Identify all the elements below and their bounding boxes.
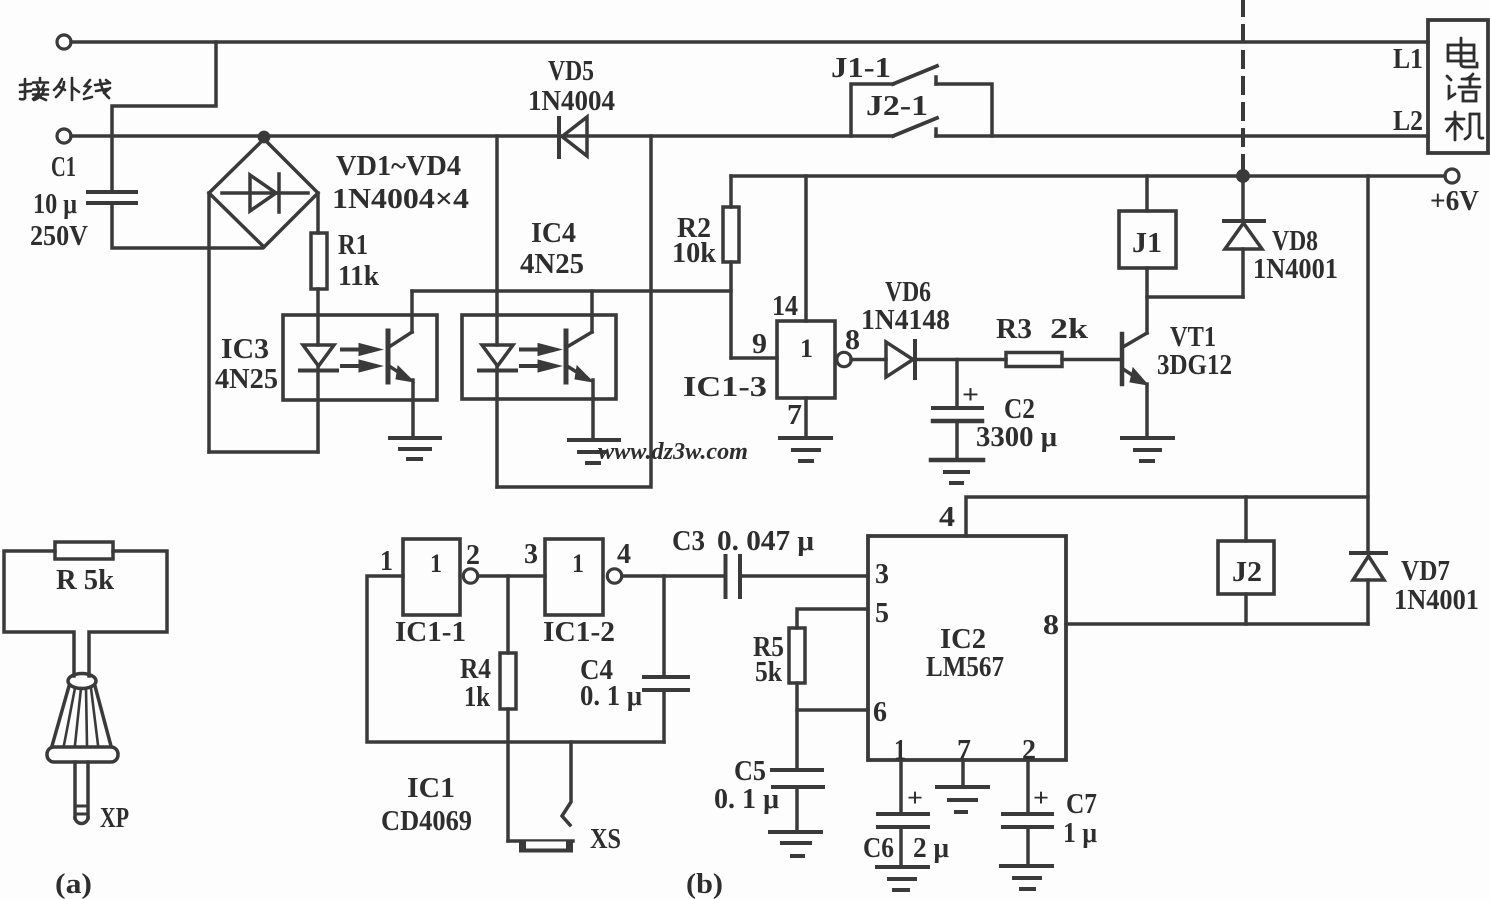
svg-text:+: +	[1033, 785, 1049, 812]
svg-text:J2: J2	[1232, 557, 1262, 588]
svg-text:www.dz3w.com: www.dz3w.com	[598, 439, 748, 465]
wire IC3 emitter down	[411, 380, 415, 437]
svg-text:L2: L2	[1393, 106, 1423, 137]
svg-text:C5: C5	[734, 756, 766, 787]
svg-text:VD1~VD4: VD1~VD4	[336, 151, 461, 182]
svg-text:IC1-2: IC1-2	[543, 617, 615, 648]
wire +6V rail	[731, 174, 1445, 178]
terminal T2	[57, 129, 71, 143]
ground pin7	[937, 785, 988, 789]
wire pin7 to ground	[804, 398, 808, 437]
svg-text:+: +	[907, 785, 923, 812]
svg-text:4N25: 4N25	[215, 364, 278, 395]
svg-text:LM567: LM567	[926, 652, 1004, 683]
svg-text:14: 14	[772, 291, 798, 322]
relay coil J1	[1145, 176, 1149, 211]
svg-text:IC3: IC3	[221, 334, 269, 365]
socket XS	[508, 839, 573, 843]
svg-text:7: 7	[957, 735, 971, 766]
ground IC3 emitter	[390, 436, 440, 440]
resistor R2	[729, 176, 733, 207]
wire pin8 net	[1066, 622, 1368, 626]
telephone box	[1428, 20, 1488, 153]
svg-text:1: 1	[800, 334, 813, 363]
svg-text:5k: 5k	[755, 657, 782, 688]
svg-text:1: 1	[894, 735, 906, 766]
svg-text:1: 1	[572, 549, 584, 578]
diode VD7	[1351, 551, 1386, 555]
switch J2-1	[893, 118, 937, 136]
ground C2	[931, 458, 983, 463]
ground C5	[770, 830, 821, 834]
optocoupler IC3 box	[283, 315, 437, 400]
svg-text:8: 8	[1043, 610, 1059, 641]
capacitor C6	[899, 760, 903, 813]
svg-text:VT1: VT1	[1170, 322, 1216, 353]
svg-text:2: 2	[466, 540, 480, 571]
wire collector bus y291	[412, 289, 731, 293]
svg-text:J1-1: J1-1	[831, 53, 891, 84]
capacitor C3	[724, 556, 728, 597]
node bridge top junction	[259, 132, 268, 141]
wire IC4 emitter down	[591, 380, 595, 438]
capacitor C4	[662, 576, 666, 677]
capacitor C7	[1026, 760, 1030, 813]
svg-text:3: 3	[875, 559, 889, 590]
char 机	[1446, 112, 1483, 140]
capacitor C2	[955, 360, 959, 408]
svg-text:XP: XP	[100, 803, 129, 834]
svg-text:1N4004: 1N4004	[528, 86, 615, 117]
capacitor C5	[772, 768, 822, 772]
svg-text:VD7: VD7	[1401, 556, 1450, 587]
svg-text:J2-1: J2-1	[866, 91, 928, 122]
wire line L2 left	[71, 134, 893, 138]
bridge inner diode	[222, 191, 308, 195]
wire pin7 down	[961, 760, 965, 786]
IC3 light arrows	[342, 348, 361, 352]
svg-text:7: 7	[787, 400, 802, 431]
wire R1 to LED	[316, 289, 320, 345]
char 话	[1447, 74, 1480, 101]
IC3 LED	[303, 345, 334, 366]
svg-text:6: 6	[873, 697, 887, 728]
ground IC4 emitter	[569, 438, 619, 442]
wire pin9	[731, 356, 777, 360]
svg-text:VD5: VD5	[548, 56, 594, 87]
diode VD6	[851, 358, 886, 362]
wire pin3	[741, 574, 868, 578]
wire input loop	[367, 576, 664, 742]
wire pin14	[804, 176, 808, 321]
svg-text:+: +	[962, 380, 979, 409]
svg-text:10 μ: 10 μ	[33, 189, 77, 220]
svg-text:1N4001: 1N4001	[1394, 585, 1479, 616]
svg-text:1k: 1k	[464, 682, 490, 713]
plug XP cone	[68, 674, 96, 689]
wire pin5	[797, 609, 868, 628]
wire line L2 right	[936, 134, 1428, 138]
ground C7	[1001, 864, 1052, 868]
wire top line L1	[71, 40, 1428, 44]
svg-text:2: 2	[1022, 735, 1036, 766]
IC4 LED	[482, 345, 513, 366]
svg-text:1N4148: 1N4148	[861, 305, 950, 336]
svg-text:XS: XS	[590, 824, 621, 855]
wire IC1-2 out to C3	[622, 574, 724, 578]
svg-text:C2: C2	[1004, 394, 1035, 425]
svg-text:R1: R1	[338, 230, 368, 261]
capacitor C1	[88, 190, 136, 194]
test plug loop (a)	[4, 551, 74, 676]
svg-text:(b): (b)	[686, 869, 723, 899]
svg-text:3DG12: 3DG12	[1157, 350, 1232, 381]
svg-text:1N4001: 1N4001	[1253, 254, 1338, 285]
svg-text:5: 5	[875, 598, 889, 629]
svg-text:R4: R4	[460, 654, 491, 685]
svg-text:1 μ: 1 μ	[1063, 818, 1097, 849]
svg-text:2 μ: 2 μ	[913, 833, 949, 864]
gate IC1-2	[545, 539, 603, 615]
char 线	[84, 80, 110, 99]
svg-text:J1: J1	[1132, 228, 1162, 259]
resistor R4	[506, 576, 510, 653]
char 电	[1448, 38, 1477, 67]
hand-drawn CJK: 接外线	[20, 78, 110, 100]
diode VD5	[557, 118, 561, 157]
resistor R5	[789, 628, 805, 683]
ground IC1-3	[780, 436, 831, 440]
svg-text:C1: C1	[51, 152, 76, 183]
terminal T1	[57, 35, 71, 49]
svg-text:0. 1 μ: 0. 1 μ	[580, 681, 642, 712]
svg-text:1: 1	[380, 546, 393, 577]
svg-text:C3: C3	[672, 526, 705, 557]
svg-text:3300 μ: 3300 μ	[976, 422, 1057, 453]
diode VD8	[1241, 176, 1245, 221]
wire bridge left arm down	[207, 193, 211, 452]
gate IC1-3	[777, 321, 835, 398]
relay coil J2	[1244, 497, 1248, 541]
svg-text:VD6: VD6	[885, 277, 931, 308]
gate IC1-1	[403, 539, 460, 615]
svg-text:1: 1	[430, 549, 442, 578]
svg-text:C6: C6	[863, 833, 894, 864]
switch J1-1	[851, 84, 893, 136]
svg-text:IC4: IC4	[531, 218, 576, 249]
wire collector to VD8	[1147, 295, 1243, 299]
optocoupler IC4 box	[462, 315, 616, 399]
svg-text:0. 1 μ: 0. 1 μ	[714, 784, 779, 815]
svg-text:4: 4	[939, 502, 955, 533]
svg-text:4: 4	[617, 539, 631, 570]
svg-text:3: 3	[524, 539, 538, 570]
hand-drawn CJK: 电话机 vertical	[1446, 38, 1483, 140]
svg-text:4N25: 4N25	[520, 249, 584, 280]
resistor R(a)	[55, 542, 113, 559]
wire +6V drop right	[1366, 176, 1370, 553]
char 外	[54, 78, 79, 100]
char 接	[20, 78, 48, 100]
svg-text:250V: 250V	[30, 221, 88, 252]
ground VT1	[1122, 436, 1173, 440]
wire IC4 LED anode from line	[495, 136, 499, 345]
svg-text:R 5k: R 5k	[56, 565, 114, 596]
svg-text:(a): (a)	[55, 869, 92, 899]
svg-text:1N4004×4: 1N4004×4	[332, 184, 469, 215]
IC4 light arrows	[521, 348, 540, 352]
ground C6	[877, 865, 928, 869]
svg-text:IC2: IC2	[940, 624, 986, 655]
svg-text:IC1: IC1	[407, 773, 455, 804]
svg-text:IC1-3: IC1-3	[683, 372, 767, 403]
wire gate1 out to gate2 in	[478, 574, 545, 578]
wire pin4 net	[966, 497, 1368, 536]
resistor R1	[311, 233, 327, 289]
svg-text:10k: 10k	[672, 238, 716, 269]
wire IC4 collector up	[590, 291, 594, 332]
svg-text:C7: C7	[1066, 789, 1097, 820]
wire branch to C1	[112, 42, 216, 191]
svg-text:VD8: VD8	[1272, 226, 1318, 257]
wire pin6	[797, 708, 868, 712]
svg-text:IC1-1: IC1-1	[395, 617, 466, 648]
IC2 box	[868, 536, 1066, 760]
node +6V rail junction	[1238, 171, 1248, 181]
svg-text:CD4069: CD4069	[381, 806, 472, 837]
terminal +6V	[1445, 169, 1459, 183]
svg-text:0. 047 μ: 0. 047 μ	[717, 526, 814, 557]
wire IC4 LED cathode return	[497, 136, 651, 487]
svg-text:11k: 11k	[338, 261, 379, 292]
svg-text:9: 9	[752, 329, 767, 360]
wire bridge bottom loop	[209, 450, 318, 454]
svg-text:2k: 2k	[1050, 314, 1089, 345]
svg-text:8: 8	[845, 325, 860, 356]
svg-text:R3: R3	[996, 314, 1032, 345]
IC4 phototransistor	[564, 331, 569, 382]
bridge VD1-VD4 diamond	[209, 139, 318, 247]
wire C1 bottom	[112, 203, 262, 248]
dashed separator	[1241, 0, 1245, 176]
wire bridge right to R1	[316, 193, 320, 233]
svg-text:L1: L1	[1393, 44, 1423, 75]
transistor VT1	[1120, 334, 1125, 384]
svg-text:+6V: +6V	[1430, 186, 1479, 217]
IC3 phototransistor	[386, 331, 391, 382]
wire IC3 collector up	[410, 291, 414, 332]
resistor R3	[1006, 353, 1062, 367]
